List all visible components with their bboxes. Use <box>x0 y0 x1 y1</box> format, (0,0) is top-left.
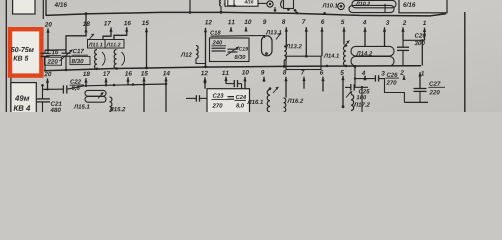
trimmer C17 leads <box>65 56 67 70</box>
wire W3 <box>355 78 375 80</box>
contact 4 arrow to L14.2 <box>363 27 366 31</box>
coil L15.1 adjust arrow <box>98 92 104 98</box>
bottom wire under C27 <box>404 101 428 103</box>
red box text KV 5 <box>13 56 28 61</box>
wire W1 left <box>43 88 64 90</box>
wire C25 <box>345 86 350 88</box>
bottom wafer contact number 1 <box>421 71 424 75</box>
capacitor C27 plates <box>414 88 427 90</box>
coil L9 screen box <box>284 0 294 9</box>
coil L11.2 <box>114 50 116 69</box>
coil L10.2 label <box>356 2 370 6</box>
capacitor C18 value <box>212 40 222 44</box>
top wafer contact number 16 <box>124 21 131 26</box>
capacitor C21 lead bottom <box>42 102 44 112</box>
riser to bottom bus right end <box>421 40 423 65</box>
red highlight box KV5 <box>10 29 41 75</box>
wire stub top-left <box>42 0 44 19</box>
box C23 C24 <box>207 89 250 116</box>
coil L14.1 label <box>324 54 339 58</box>
contact 20 arrow to C16 wire <box>46 28 49 32</box>
bottom contact 4 arrow <box>363 76 366 80</box>
wire W2 common <box>67 84 166 89</box>
coil L13.2 label <box>286 44 302 48</box>
coil L16.2 <box>284 98 286 112</box>
top wafer contact number 11 <box>228 20 235 24</box>
coil L10.2 upper loop <box>352 0 396 7</box>
inner box dot <box>233 5 236 8</box>
bottom contact 10 arrow <box>243 77 246 81</box>
capacitor C20 wire top <box>403 39 425 41</box>
coil L16.1 adjust arrow <box>273 87 279 93</box>
capacitor C27 arrow <box>418 72 421 76</box>
band box text KV 4 <box>14 105 31 110</box>
coil L16.1 <box>267 90 270 113</box>
bottom contact 12 arrow <box>203 77 206 81</box>
top wafer contact number 3 <box>386 20 389 25</box>
red box text 50-75m <box>11 47 34 52</box>
top wafer contact number 8 <box>282 19 285 24</box>
coil L14.2 upper loop <box>351 46 394 56</box>
coil L14.1 <box>344 46 346 66</box>
top wafer contact number 9 <box>263 19 266 24</box>
page inner border line (lower half) <box>10 74 12 112</box>
trimmer C17 plates <box>62 52 71 54</box>
bottom wafer contact number 17 <box>103 71 110 75</box>
trimmer C19 arrow <box>226 47 239 56</box>
top wafer contact number 15 <box>142 21 149 25</box>
bottom contact 16 arrow <box>126 77 129 81</box>
capacitor C21 lead top <box>42 85 44 99</box>
coil L10.2 lower loop <box>349 5 394 12</box>
bottom wafer contact number 11 <box>222 71 229 75</box>
bottom wafer contact number 10 <box>242 70 249 75</box>
wire from bus down to W3 <box>354 66 356 87</box>
capacitor C20 value <box>415 41 425 45</box>
trimmer box value fragment <box>244 0 253 3</box>
coil L15.1 lower loop <box>85 96 106 102</box>
trimmer C19 plates <box>228 48 238 50</box>
top wafer contact number 12 <box>205 20 212 24</box>
series cap plates at box <box>195 95 197 101</box>
wire from C18 box to L13.1 loop <box>211 36 265 39</box>
wire C16-C17 top <box>45 49 66 51</box>
coil L16.2 label <box>287 99 303 103</box>
coil L13.1 label <box>266 30 282 34</box>
coil L13.1 loop <box>262 36 273 56</box>
coil L14.2 label <box>356 51 372 55</box>
coil L8 vertical wire <box>189 0 191 12</box>
capacitor C16 plates <box>41 52 50 54</box>
coil L13.2 lead <box>283 60 285 66</box>
capacitor C20 leads <box>402 40 404 47</box>
contact 5 arrow <box>342 27 345 31</box>
junction dots on W2 <box>113 84 116 87</box>
bottom wafer contact number 14 <box>163 71 170 75</box>
top bus wafer line <box>46 12 446 16</box>
core line L10.2 <box>384 4 386 13</box>
bottom contact 18 arrow <box>84 78 87 82</box>
page background left border line <box>5 0 7 112</box>
paper background <box>0 0 502 112</box>
capacitor C26 label <box>387 73 398 77</box>
coil L16.1 label <box>247 100 263 104</box>
coil L15.2 <box>110 97 112 112</box>
top wafer contact number 20 <box>45 22 52 27</box>
contact 3 arrow to L14.2 right <box>383 27 386 31</box>
top wafer contact number 10 <box>244 20 251 25</box>
shield box left of L14 <box>286 56 321 69</box>
bottom bus wafer line <box>44 66 421 71</box>
coil L17.2 adjust arrow <box>346 91 352 97</box>
coil L12 lead <box>196 59 206 64</box>
coil L17.2 label <box>354 102 370 106</box>
bottom wafer contact number 20 <box>44 72 51 77</box>
coil L14.1 adjust arrow <box>344 41 350 47</box>
top bus left end vertical <box>45 0 47 16</box>
top wafer contact number 7 <box>302 19 305 23</box>
trimmer box above L8 <box>225 0 258 6</box>
series cap C24a <box>233 80 235 87</box>
bottom wafer contact number 16 <box>125 71 132 76</box>
junction C16 wire <box>47 49 49 51</box>
capacitor C27 label <box>429 81 440 85</box>
coil L12 label <box>181 52 192 56</box>
coil L11.2 label <box>106 43 120 47</box>
C18 C19 box <box>210 38 250 62</box>
wire from C26 to corner <box>379 79 404 103</box>
coil L14.2 lower loop <box>351 56 394 66</box>
bottom contact 17 arrow <box>104 78 107 82</box>
top wafer contact number 5 <box>341 20 345 24</box>
contact 17 arrow jog to L11.1 <box>109 27 112 31</box>
bottom wafer contact number 15 <box>141 71 148 75</box>
wire into C23 box <box>186 97 196 99</box>
adjust arrow above L11 labels <box>90 34 95 39</box>
top wafer contact number 2 <box>403 20 407 24</box>
coil L11.1 core arc <box>102 52 105 66</box>
wire C25 right <box>355 86 369 88</box>
stub wires to bus <box>274 7 276 10</box>
contact 16 arrow jog to L11.2 <box>125 27 128 31</box>
bottom contact 9 arrow <box>262 77 265 81</box>
trimmer box 6/16 <box>399 0 447 13</box>
screen box dots <box>287 8 290 11</box>
bottom wafer contact number 9 <box>261 70 264 75</box>
coil L8 <box>220 0 221 6</box>
junction dot top bus right <box>323 12 326 15</box>
bottom wafer contact number 12 <box>201 71 208 75</box>
trimmer 6/16 value <box>403 2 415 7</box>
trimmer C17 label <box>73 49 84 53</box>
coil L11.2 core arc <box>122 52 125 66</box>
bottom wafer contact number 5 <box>340 70 344 74</box>
contact 10 arrow stub <box>244 27 247 31</box>
capacitor C22 plates <box>62 85 64 93</box>
band box KV4 (cut at bottom) <box>11 83 36 116</box>
capacitor C16 label <box>47 50 58 54</box>
top wafer contact number 18 <box>83 21 90 26</box>
bottom contact 6 arrow <box>321 77 324 81</box>
bottom contact 15 arrow long <box>142 77 145 81</box>
bottom wafer contact number 4 <box>362 71 366 75</box>
contact 8 arrow to L13.2 <box>285 27 288 31</box>
contact 15 long arrow to bottom bus <box>145 28 148 32</box>
right section divider vertical line <box>464 12 466 112</box>
capacitor C18 plates <box>212 47 226 49</box>
bottom wafer contact number 3 <box>381 71 384 76</box>
coil L8 label <box>224 0 231 4</box>
coil L15.1 label <box>74 104 90 108</box>
bottom contact 20 arrow <box>46 78 49 82</box>
capacitor C20 plates <box>397 46 409 48</box>
capacitor C26 plates <box>374 75 376 81</box>
bottom wafer contact number 7 <box>301 70 304 74</box>
top wafer contact number 4 <box>363 20 367 24</box>
contact 1 arrow to C20 wire <box>423 28 426 32</box>
junction dots bottom bus mid <box>326 65 329 68</box>
coil L13.1 dot <box>265 52 268 55</box>
coil L13.2 <box>284 47 286 61</box>
capacitor C18 label <box>210 31 220 35</box>
capacitor C24 plates <box>228 96 235 98</box>
coil L10.1 end circle with dot <box>338 3 345 10</box>
coil L12 <box>196 46 198 59</box>
capacitor C22 label <box>70 79 81 83</box>
contact 7 arrow to shield box <box>305 27 308 31</box>
capacitor C25 plates <box>350 84 352 91</box>
contact 6 arrow <box>320 27 323 31</box>
coil L11.1 <box>95 50 97 70</box>
coil L11.1 label box <box>88 40 106 49</box>
coil L11.2 label box <box>105 40 124 49</box>
trimmer C17 arrow <box>60 50 73 61</box>
coil L13.1 adjust arrow <box>276 33 281 40</box>
bottom contact 2 arrow stub <box>402 76 405 80</box>
capacitor C24 label <box>236 95 246 99</box>
wire to L9 circle <box>258 2 267 4</box>
coil L9 arc <box>281 0 283 8</box>
coil L9 end circle with dot <box>267 1 273 7</box>
bottom wafer contact number 18 <box>83 72 90 77</box>
bottom wafer contact number 8 <box>283 70 286 75</box>
bottom contact 7 arrow <box>302 77 305 81</box>
coil L11.1 label <box>88 43 102 47</box>
capacitor C25 label <box>359 89 370 93</box>
top wafer contact number 6 <box>321 19 324 24</box>
bottom contact 5 arrow <box>341 76 344 80</box>
top wafer contact number 17 <box>104 21 111 25</box>
bottom contact 11 arrow <box>224 77 227 81</box>
bottom wafer contact number 6 <box>320 70 323 75</box>
trimmer C19 value <box>235 55 246 59</box>
contact 11 arrow stub <box>229 27 232 31</box>
coil L17.2 <box>351 95 354 111</box>
trimmer C19 label <box>239 47 248 51</box>
wire down at 362 <box>361 87 363 112</box>
contact 2 arrow to C20 wire <box>401 27 404 31</box>
bottom wafer contact number 2 <box>400 70 404 74</box>
contact 12 arrow to bus <box>204 28 207 32</box>
capacitor C21 label <box>51 101 62 105</box>
coil L15.2 label <box>109 107 125 111</box>
coil L15.1 upper loop <box>85 90 106 96</box>
capacitor C23 label <box>213 93 224 97</box>
inner box <box>228 0 234 6</box>
capacitor C16 leads <box>44 50 46 53</box>
capacitor C27 lead bottom <box>419 91 421 102</box>
wire into box <box>200 97 207 99</box>
contact 18 wire from top bus <box>85 12 88 15</box>
band box KV6 (cut at top) <box>13 0 35 14</box>
bottom contact 14 arrow long <box>164 77 167 81</box>
top wafer contact number 1 <box>423 21 426 25</box>
trimmer value 4/16 label <box>54 2 67 7</box>
capacitor C21 plates <box>37 98 50 100</box>
bottom contact 8 arrow <box>284 77 287 81</box>
band box text 49m <box>15 95 29 101</box>
capacitor C20 label <box>415 33 426 37</box>
junction dot L14.2 to bus <box>354 65 357 68</box>
capacitor C18 fraction bar <box>212 45 227 47</box>
coil L10.1 label <box>322 3 337 7</box>
